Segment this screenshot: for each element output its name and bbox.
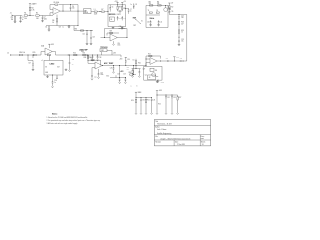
svg-text:+BATT: +BATT bbox=[31, 2, 36, 5]
svg-text:1M: 1M bbox=[11, 19, 14, 21]
svg-text:C38: C38 bbox=[99, 57, 102, 59]
svg-text:R3: R3 bbox=[11, 17, 13, 19]
inductor L1 bbox=[94, 9, 97, 16]
wire in bbox=[88, 60, 95, 74]
resistor R9 bbox=[122, 4, 126, 11]
regulator U2 bbox=[84, 9, 92, 14]
junction bbox=[29, 14, 32, 17]
label pair bbox=[127, 67, 130, 71]
svg-text:1M: 1M bbox=[155, 70, 158, 72]
svg-text:1u: 1u bbox=[130, 11, 132, 13]
ground bbox=[149, 24, 152, 26]
ground bbox=[156, 81, 159, 83]
cap C38 bbox=[97, 55, 102, 60]
svg-text:1/1: 1/1 bbox=[202, 144, 204, 146]
svg-text:BC8: BC8 bbox=[169, 9, 172, 11]
resistor R22 bbox=[148, 53, 152, 56]
pin top bbox=[48, 55, 50, 60]
resistor ladder R24 bbox=[131, 98, 137, 115]
transistor bbox=[156, 77, 159, 82]
svg-text:C30: C30 bbox=[142, 100, 145, 102]
svg-text:Y1: Y1 bbox=[148, 10, 150, 12]
svg-text:R26: R26 bbox=[158, 103, 161, 105]
svg-text:R7: R7 bbox=[101, 9, 103, 11]
cap C41 bbox=[121, 16, 126, 20]
svg-text:1k: 1k bbox=[181, 32, 183, 34]
svg-text:R5 100k: R5 100k bbox=[54, 2, 60, 4]
label ADC_TEMP bbox=[104, 62, 114, 65]
op-amp U7 bbox=[110, 34, 117, 41]
svg-text:100n: 100n bbox=[100, 74, 103, 76]
resistor R7 bbox=[101, 9, 104, 12]
svg-text:32kHz: 32kHz bbox=[149, 18, 154, 20]
svg-text:+3V3: +3V3 bbox=[51, 44, 55, 46]
svg-text:GND: GND bbox=[45, 72, 48, 74]
rail top bbox=[108, 3, 126, 6]
ground bbox=[46, 76, 49, 78]
cap C37 bbox=[89, 55, 94, 60]
resistor R14 bbox=[19, 52, 25, 56]
svg-text:LM2937IMP: LM2937IMP bbox=[79, 49, 87, 51]
svg-text:VR2: VR2 bbox=[101, 50, 104, 52]
svg-text:C1: C1 bbox=[22, 17, 24, 19]
svg-text:C22: C22 bbox=[82, 34, 85, 36]
out wire bbox=[102, 64, 146, 67]
timer box U9 bbox=[144, 66, 162, 80]
op-amp U4 bbox=[41, 48, 52, 55]
svg-text:+3V3: +3V3 bbox=[114, 1, 117, 3]
svg-text:1k: 1k bbox=[52, 22, 54, 24]
svg-text:Notes:: Notes: bbox=[52, 113, 58, 116]
cap C9 bbox=[156, 10, 159, 13]
svg-text:Q2: Q2 bbox=[145, 74, 147, 76]
svg-text:R29: R29 bbox=[110, 31, 113, 33]
label bbox=[133, 60, 135, 62]
svg-text:C40: C40 bbox=[119, 17, 122, 19]
svg-text:Docu-: Docu- bbox=[201, 136, 205, 138]
fb top rail bbox=[105, 29, 128, 38]
cap C10 bbox=[147, 20, 151, 24]
rail bottom bbox=[146, 27, 168, 29]
svg-text:+3V3: +3V3 bbox=[176, 57, 179, 59]
wire mid bbox=[146, 14, 160, 16]
cap ladder C33 bbox=[171, 95, 176, 114]
rail2 bbox=[136, 96, 153, 99]
rail bottom bbox=[108, 26, 126, 28]
svg-text:Sheets: Sheets bbox=[201, 140, 206, 143]
label bbox=[41, 44, 44, 47]
svg-text:R1: R1 bbox=[24, 13, 26, 15]
capacitor C2 bbox=[42, 16, 47, 21]
label bold U4 part bbox=[79, 49, 87, 53]
svg-text:Revision: Revision bbox=[155, 141, 161, 143]
svg-text:C9: C9 bbox=[156, 10, 158, 12]
svg-text:C26: C26 bbox=[110, 67, 113, 69]
svg-text:Josh J. Stone: Josh J. Stone bbox=[157, 128, 167, 131]
cap C8 bbox=[130, 3, 137, 8]
svg-text:R16: R16 bbox=[73, 52, 76, 54]
wire bbox=[28, 15, 35, 17]
aground bbox=[112, 44, 114, 46]
resistor R16 bbox=[73, 52, 77, 55]
wire bbox=[36, 54, 41, 56]
svg-text:R15: R15 bbox=[33, 52, 36, 54]
bus vertical bbox=[63, 5, 78, 26]
junction bbox=[132, 67, 141, 70]
svg-text:C6: C6 bbox=[112, 7, 114, 9]
capacitor C36 bbox=[119, 26, 126, 29]
ic U3 box bbox=[110, 17, 115, 21]
rail1 bbox=[157, 94, 178, 97]
wire bbox=[78, 10, 84, 12]
svg-text:R27: R27 bbox=[179, 97, 182, 99]
svg-text:10n: 10n bbox=[94, 77, 96, 79]
svg-text:MSP430: MSP430 bbox=[109, 13, 116, 16]
ground bbox=[90, 43, 93, 45]
pin right chain bbox=[56, 75, 58, 76]
svg-text:TPS76333: TPS76333 bbox=[100, 47, 107, 49]
svg-text:C33: C33 bbox=[173, 97, 176, 99]
cap C40 bbox=[117, 16, 122, 20]
svg-text:R33: R33 bbox=[127, 67, 130, 69]
cap C27 bbox=[139, 68, 146, 75]
svg-text:C35: C35 bbox=[171, 11, 174, 13]
svg-text:x1: x1 bbox=[42, 60, 44, 62]
svg-text:OUT: OUT bbox=[57, 67, 60, 69]
svg-text:C18: C18 bbox=[54, 80, 57, 82]
svg-text:R11: R11 bbox=[157, 2, 160, 4]
svg-text:R20: R20 bbox=[129, 72, 132, 74]
wire bbox=[170, 60, 180, 63]
cap ladder C32 bbox=[165, 95, 170, 114]
svg-text:C29: C29 bbox=[123, 74, 126, 76]
ground bbox=[19, 21, 22, 23]
cap C23 bbox=[90, 31, 95, 44]
resistor R12 bbox=[169, 4, 174, 10]
svg-text:R12: R12 bbox=[171, 6, 174, 8]
svg-text:U2: U2 bbox=[84, 10, 86, 12]
wire bbox=[14, 54, 19, 56]
svg-text:VS: VS bbox=[45, 67, 47, 69]
title block text bbox=[155, 120, 205, 146]
svg-text:−: − bbox=[55, 12, 56, 14]
aground bbox=[68, 70, 70, 72]
feedback loop bbox=[52, 52, 55, 56]
cap C13 bbox=[178, 38, 184, 43]
wire bbox=[23, 54, 35, 57]
svg-text:VCC: VCC bbox=[106, 76, 109, 78]
svg-text:b: b bbox=[137, 86, 138, 88]
label bbox=[42, 60, 44, 62]
svg-text:C32: C32 bbox=[167, 97, 170, 99]
rail top bbox=[146, 4, 168, 6]
resistor R2 bbox=[36, 13, 39, 20]
power flag bbox=[173, 57, 179, 61]
svg-text:R25: R25 bbox=[147, 100, 150, 102]
cap C18 bbox=[52, 79, 57, 86]
ic X2 inner bbox=[150, 68, 158, 72]
resistor R6 bbox=[52, 19, 57, 26]
op-amp U8 bbox=[150, 58, 157, 65]
cap ladder C30 bbox=[140, 98, 145, 115]
wire in bbox=[146, 59, 150, 66]
svg-text:Title: Title bbox=[155, 120, 158, 123]
svg-text:U3: U3 bbox=[110, 19, 112, 21]
svg-text:F2013: F2013 bbox=[117, 14, 121, 16]
resistor R13 bbox=[178, 30, 184, 38]
power +3V3 flag bbox=[114, 1, 118, 4]
cap C6 bbox=[109, 5, 113, 12]
svg-text:RST: RST bbox=[133, 25, 136, 27]
ground bbox=[59, 25, 71, 28]
svg-text:Satellite Engineering: Satellite Engineering bbox=[157, 132, 171, 135]
resistor R3 bbox=[11, 16, 16, 21]
ground bbox=[41, 20, 44, 22]
svg-text:10k: 10k bbox=[24, 18, 27, 20]
ground bbox=[32, 69, 35, 71]
aground bbox=[97, 77, 99, 79]
cap C29 bbox=[123, 74, 126, 82]
svg-text:C20: C20 bbox=[72, 59, 75, 61]
svg-text:L1: L1 bbox=[94, 9, 96, 11]
wire bbox=[105, 10, 109, 13]
crystal Y1 bbox=[148, 10, 153, 13]
svg-text:R13: R13 bbox=[181, 30, 184, 32]
svg-text:R28: R28 bbox=[181, 22, 184, 24]
notes text block bbox=[47, 113, 101, 126]
rail right bbox=[125, 5, 127, 27]
feedback bbox=[88, 58, 101, 66]
capacitor C17 bbox=[28, 55, 34, 69]
svg-text:2. For quantized caps and othe: 2. For quantized caps and other temp-cri… bbox=[47, 119, 101, 122]
svg-text:AGND: AGND bbox=[160, 81, 164, 84]
svg-text:1u: 1u bbox=[22, 19, 24, 21]
cap C42 bbox=[166, 58, 171, 62]
box U5 LM60 bbox=[44, 60, 63, 75]
title block rows bbox=[154, 125, 210, 145]
rail right v bbox=[167, 5, 169, 27]
svg-text:Date:: Date: bbox=[175, 140, 179, 143]
svg-text:R4: R4 bbox=[31, 8, 33, 10]
svg-text:+3V3: +3V3 bbox=[119, 58, 122, 60]
junction bbox=[97, 10, 101, 13]
node fb up bbox=[62, 5, 65, 12]
svg-text:R6: R6 bbox=[52, 20, 54, 22]
op-amp U6 bbox=[95, 62, 102, 69]
wire bbox=[185, 60, 187, 62]
cap C44 bbox=[91, 74, 97, 79]
svg-text:+: + bbox=[55, 10, 56, 12]
svg-text:J1: J1 bbox=[10, 13, 12, 15]
resistor R10 bbox=[149, 2, 153, 6]
svg-text:4.7k: 4.7k bbox=[31, 10, 34, 12]
svg-text:10k: 10k bbox=[127, 69, 129, 71]
svg-text:C44: C44 bbox=[94, 75, 97, 77]
resistor R31 bbox=[47, 54, 50, 55]
svg-text:C5: C5 bbox=[45, 27, 47, 29]
resistor R20 bbox=[129, 65, 136, 75]
svg-text:1u: 1u bbox=[130, 4, 132, 6]
svg-text:R9: R9 bbox=[123, 8, 125, 10]
ground bbox=[14, 21, 17, 23]
svg-text:C8: C8 bbox=[135, 4, 137, 6]
ground bbox=[157, 80, 164, 84]
svg-text:C13: C13 bbox=[181, 39, 184, 41]
svg-text:3. All limits and rails are si: 3. All limits and rails are single-ended… bbox=[47, 122, 79, 125]
resistor R18 bbox=[84, 56, 89, 60]
wire out bbox=[117, 36, 127, 39]
resistor R21 bbox=[135, 59, 141, 69]
ladder top bbox=[169, 13, 186, 16]
svg-text:10u: 10u bbox=[181, 17, 184, 19]
svg-text:C39: C39 bbox=[127, 59, 130, 61]
svg-text:C36: C36 bbox=[119, 26, 122, 28]
cap C11 bbox=[158, 20, 163, 24]
svg-text:C43: C43 bbox=[180, 58, 183, 60]
svg-text:+3V3: +3V3 bbox=[113, 53, 116, 55]
lower rail bbox=[46, 25, 78, 27]
svg-text:10u: 10u bbox=[181, 41, 184, 43]
op-amp U1A bbox=[53, 8, 60, 15]
transistor Q1 bbox=[164, 5, 172, 12]
svg-text:R21: R21 bbox=[138, 62, 141, 64]
svg-text:4k7: 4k7 bbox=[181, 23, 183, 25]
regulator VR2 box bbox=[100, 49, 107, 52]
resistor R30 bbox=[75, 29, 84, 32]
ground bbox=[86, 43, 89, 45]
svg-text:C12: C12 bbox=[181, 15, 184, 17]
output rail bbox=[56, 54, 122, 57]
box J3 bbox=[148, 75, 156, 80]
power flag bbox=[48, 44, 54, 48]
aground bbox=[124, 82, 126, 84]
svg-text:1u: 1u bbox=[72, 64, 74, 66]
svg-text:LM60: LM60 bbox=[50, 63, 55, 65]
label bbox=[117, 43, 120, 47]
filter rail bbox=[74, 29, 93, 32]
wire down bbox=[118, 65, 121, 77]
svg-text:100: 100 bbox=[36, 18, 39, 20]
resistor R15 bbox=[33, 52, 37, 56]
svg-text:R2: R2 bbox=[36, 13, 38, 15]
svg-text:+5V: +5V bbox=[123, 1, 125, 3]
label TPS76333 bbox=[100, 47, 107, 49]
cap C26 bbox=[110, 65, 115, 71]
wire reg bbox=[102, 50, 117, 55]
svg-text:Thermistor - 4k 5mf: Thermistor - 4k 5mf bbox=[157, 123, 172, 126]
svg-text:R14 10k: R14 10k bbox=[19, 52, 25, 54]
svg-text:10uH: 10uH bbox=[94, 14, 97, 16]
svg-text:C27: C27 bbox=[143, 68, 146, 70]
ladder right rail bbox=[186, 15, 188, 62]
power flag2 bbox=[121, 1, 126, 4]
svg-text:R18: R18 bbox=[84, 57, 87, 59]
rail left bbox=[145, 5, 147, 27]
wire bbox=[50, 10, 53, 16]
svg-text:C10: C10 bbox=[147, 21, 150, 23]
pin mid bbox=[51, 75, 54, 79]
ground bbox=[138, 76, 140, 78]
ground bbox=[121, 27, 124, 29]
op-amp pwr pin bbox=[56, 15, 58, 19]
pwr pin bbox=[98, 69, 100, 72]
label OSC bbox=[149, 18, 154, 20]
wire bbox=[91, 11, 94, 13]
resistor R4 bbox=[29, 7, 34, 15]
wire bbox=[13, 15, 22, 17]
svg-text:R8: R8 bbox=[119, 7, 121, 9]
cap C39 bbox=[125, 57, 130, 66]
svg-text:C4: C4 bbox=[72, 6, 74, 8]
cap C21 gnd bbox=[65, 68, 68, 70]
cap C12 bbox=[178, 15, 184, 21]
svg-text:1u: 1u bbox=[54, 82, 56, 84]
svg-text:-3.3: -3.3 bbox=[81, 51, 84, 53]
svg-text:C19: C19 bbox=[59, 27, 62, 29]
aground bbox=[51, 86, 53, 88]
svg-text:U4A: U4A bbox=[41, 44, 44, 47]
aground bbox=[96, 59, 98, 61]
svg-text:C11: C11 bbox=[160, 21, 163, 23]
svg-text:R30: R30 bbox=[75, 29, 78, 31]
aground bbox=[119, 82, 121, 84]
resistor R8 bbox=[117, 4, 121, 11]
wire flag bbox=[119, 55, 122, 60]
ground bbox=[132, 76, 134, 78]
cap C19 bbox=[56, 76, 58, 79]
svg-text:c:\eagle\ — /lib/schem/thermis: c:\eagle\ — /lib/schem/thermistor_board_… bbox=[160, 137, 191, 140]
svg-text:R24: R24 bbox=[131, 100, 134, 102]
cap ladder C31 bbox=[151, 98, 156, 115]
svg-text:ADC_TEMP: ADC_TEMP bbox=[104, 62, 114, 65]
svg-text:VREF: VREF bbox=[138, 92, 142, 94]
power flag G1 bbox=[156, 90, 162, 95]
resistor R5 feedback bbox=[50, 2, 63, 9]
junction bbox=[135, 64, 138, 67]
diode D2 bbox=[132, 69, 133, 76]
svg-text:S1: S1 bbox=[141, 21, 143, 23]
svg-text:J2: J2 bbox=[7, 52, 9, 54]
svg-text:a: a bbox=[131, 86, 132, 88]
cap C28 bbox=[116, 74, 126, 82]
resistor R17 bbox=[83, 52, 87, 55]
svg-text:10n: 10n bbox=[72, 8, 75, 10]
wire bbox=[73, 26, 75, 31]
feedback rail bbox=[146, 56, 161, 66]
power +BATT bbox=[29, 2, 37, 7]
connector J2 bbox=[7, 52, 14, 55]
transistor Q2 bbox=[145, 73, 156, 77]
resistor R1 bbox=[24, 13, 27, 20]
ground bbox=[157, 24, 160, 26]
svg-text:100n: 100n bbox=[44, 18, 48, 20]
wire bbox=[118, 11, 123, 14]
ground bbox=[112, 27, 115, 29]
cap C22 bbox=[82, 31, 87, 44]
wire out bbox=[60, 10, 78, 12]
svg-text:+3V3: +3V3 bbox=[159, 90, 163, 92]
wire in bbox=[101, 36, 111, 39]
svg-text:C25: C25 bbox=[100, 72, 103, 74]
wire mid col bbox=[156, 95, 161, 114]
label MSP430 bbox=[109, 13, 121, 16]
connector J1 bbox=[10, 13, 13, 17]
cap C5 bbox=[45, 26, 50, 30]
pwr pin bbox=[113, 41, 115, 43]
label bold2 bbox=[120, 71, 124, 73]
svg-text:C42: C42 bbox=[166, 58, 169, 60]
svg-text:J3: J3 bbox=[149, 77, 151, 79]
